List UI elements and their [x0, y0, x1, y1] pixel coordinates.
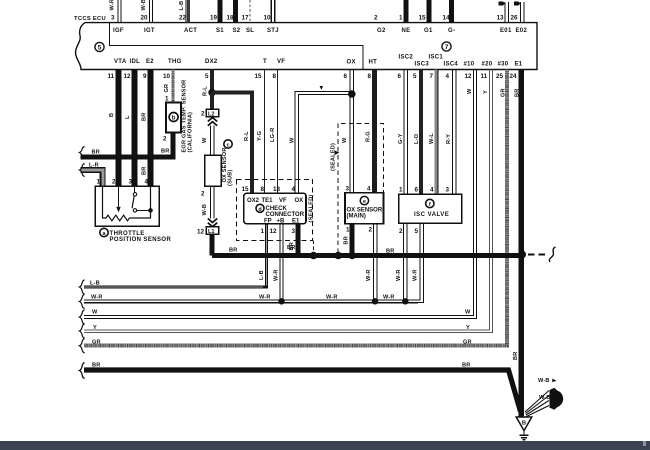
svg-text:8: 8 [273, 73, 277, 80]
svg-text:L1: L1 [208, 229, 215, 235]
svg-text:G2: G2 [377, 28, 386, 34]
svg-text:NE: NE [402, 28, 411, 34]
ground symbol B [516, 417, 532, 431]
svg-text:Y-G: Y-G [257, 131, 263, 141]
svg-text:L-O: L-O [414, 133, 420, 144]
svg-text:G1: G1 [424, 28, 433, 34]
ECU connector sub-box (IGF..STJ) [110, 23, 364, 70]
connector L2 [206, 109, 218, 117]
svg-text:BR: BR [142, 113, 148, 121]
svg-text:6: 6 [344, 73, 348, 80]
svg-text:BR: BR [161, 149, 169, 155]
svg-text:2: 2 [369, 227, 373, 234]
wire DX2 down to L2 [210, 93, 214, 110]
svg-text:E1: E1 [292, 218, 300, 224]
wire VF (LG-R) [277, 70, 279, 194]
svg-text:3: 3 [292, 228, 296, 235]
svg-text:G-: G- [448, 28, 455, 34]
svg-text:2: 2 [201, 111, 205, 118]
svg-text:G-Y: G-Y [398, 133, 404, 144]
wire W to OX sub [210, 126, 214, 156]
left break brace GR wire [79, 339, 84, 353]
svg-text:W: W [342, 137, 348, 143]
svg-text:13: 13 [273, 186, 281, 193]
ECU row1 pin numbers [111, 15, 518, 22]
svg-text:W-R: W-R [91, 295, 103, 301]
svg-text:Y: Y [483, 90, 489, 94]
OX main dashed shield [338, 123, 383, 253]
svg-text:2: 2 [374, 15, 378, 22]
svg-text:BR: BR [513, 352, 519, 360]
svg-text:IGF: IGF [113, 28, 124, 34]
svg-text:W-R: W-R [110, 0, 116, 11]
wire T (Y-G) [264, 70, 266, 194]
wire IGF (W-R pair) [118, 0, 121, 23]
svg-text:11: 11 [481, 73, 488, 80]
svg-text:GR: GR [501, 88, 507, 97]
wire NE [403, 0, 408, 23]
svg-text:B: B [109, 113, 115, 117]
svg-text:8: 8 [368, 73, 372, 80]
svg-text:b: b [172, 116, 176, 122]
svg-text:(SUB): (SUB) [228, 169, 234, 186]
wire ISC pin2 W-R [404, 223, 408, 301]
connector L1 [206, 227, 218, 235]
svg-text:W-R: W-R [396, 269, 402, 281]
svg-text:W-R: W-R [366, 269, 372, 281]
svg-text:OX SENSOR: OX SENSOR [347, 208, 383, 214]
svg-text:OX: OX [295, 198, 304, 204]
svg-text:VTA: VTA [114, 59, 127, 65]
svg-text:(SEALED): (SEALED) [331, 143, 337, 171]
svg-text:e: e [363, 199, 366, 205]
svg-text:7: 7 [430, 73, 434, 80]
svg-text:W-B: W-B [538, 378, 550, 384]
svg-text:W-B: W-B [202, 204, 208, 216]
svg-text:20: 20 [141, 15, 149, 22]
wire +B (W-R pair) [280, 224, 283, 301]
svg-text:W-B: W-B [141, 0, 147, 11]
connector arrows under L2 [208, 118, 217, 126]
svg-text:4: 4 [292, 186, 296, 193]
svg-text:POSITION SENSOR: POSITION SENSOR [110, 237, 172, 243]
svg-text:BR: BR [229, 248, 237, 254]
wire OX main pin2 W-R [373, 224, 377, 301]
svg-text:7: 7 [445, 44, 449, 51]
svg-text:W: W [202, 137, 208, 143]
svg-text:15: 15 [255, 73, 263, 80]
svg-text:13: 13 [497, 15, 505, 22]
svg-text:VF: VF [277, 59, 285, 65]
svg-text:3: 3 [446, 187, 450, 194]
svg-text:(MAIN): (MAIN) [347, 214, 366, 220]
svg-text:L-B: L-B [179, 1, 185, 11]
svg-text:3: 3 [129, 179, 133, 186]
node bus to E1 wire [518, 251, 526, 259]
svg-text:ISC4: ISC4 [444, 61, 459, 67]
svg-text:W-R: W-R [259, 295, 271, 301]
node shield junction 2 [334, 252, 342, 260]
svg-text:GR: GR [92, 340, 101, 346]
svg-text:E2: E2 [146, 59, 154, 65]
wire ISC2 (G-Y pair) [404, 70, 408, 195]
fan wires to ground [525, 391, 549, 417]
node DX2 junction [208, 89, 215, 96]
svg-text:W: W [465, 310, 471, 316]
BR bottom line [84, 370, 521, 412]
wire R-L to check connector OX2 [212, 93, 252, 194]
svg-text:BR: BR [515, 89, 521, 97]
svg-text:W-B: W-B [539, 395, 551, 401]
svg-text:BR: BR [142, 167, 148, 175]
svg-text:4: 4 [446, 73, 450, 80]
svg-text:W-R: W-R [274, 269, 280, 281]
svg-text:18: 18 [227, 15, 235, 22]
IDL switch [134, 186, 136, 192]
throttle position sensor box [95, 186, 159, 226]
svg-text:BR: BR [462, 363, 470, 369]
left break brace W wire [79, 310, 84, 324]
svg-text:ISC VALVE: ISC VALVE [414, 212, 449, 218]
svg-text:#20: #20 [482, 61, 493, 67]
OX sensor (sub) c [205, 155, 222, 186]
svg-text:3: 3 [111, 15, 115, 22]
svg-text:BR: BR [92, 150, 100, 156]
OX sensor (main) e [345, 193, 384, 224]
wire ACT (L-B) [187, 0, 190, 23]
svg-text:24: 24 [510, 73, 518, 80]
svg-text:W-R: W-R [383, 295, 395, 301]
svg-text:BR: BR [344, 236, 350, 244]
svg-text:2: 2 [112, 179, 116, 186]
wire FP (L-B) [84, 224, 267, 287]
svg-text:W-L: W-L [429, 133, 435, 144]
svg-text:6: 6 [398, 73, 402, 80]
wire E1/BR main ground wire [518, 70, 524, 418]
svg-text:26: 26 [511, 15, 519, 22]
svg-text:FP: FP [264, 218, 272, 224]
svg-text:9: 9 [143, 73, 147, 80]
wire VTA (B) [116, 70, 122, 187]
wire SL (dashed) [249, 0, 251, 23]
svg-text:VF: VF [279, 198, 287, 204]
svg-text:1: 1 [165, 96, 169, 103]
node ISC W-R junction [402, 298, 408, 304]
node +B junction [278, 298, 284, 304]
left break brace BR wire [79, 147, 84, 159]
BR bus [212, 253, 523, 258]
svg-text:ISC3: ISC3 [415, 61, 430, 67]
wire #20 (Y pair) down to Y line [84, 70, 493, 333]
wire S2 [233, 0, 238, 23]
svg-text:2: 2 [201, 191, 205, 198]
svg-text:#30: #30 [498, 61, 509, 67]
svg-text:17: 17 [242, 15, 250, 22]
ECU connector symbol 5 [95, 42, 104, 51]
ISC valve f [399, 194, 462, 223]
wiper arrow [118, 186, 120, 206]
wire E01 pair with arrow [505, 2, 509, 23]
svg-text:4: 4 [367, 186, 371, 193]
svg-text:5: 5 [98, 45, 102, 52]
W-R line [84, 300, 418, 303]
svg-text:LG-R: LG-R [270, 128, 276, 142]
svg-text:B: B [522, 421, 526, 427]
svg-text:1: 1 [97, 179, 101, 186]
svg-text:R-L: R-L [203, 86, 209, 96]
wire L-R to throttle pin1 [81, 170, 103, 186]
svg-text:10: 10 [163, 73, 171, 80]
svg-text:1: 1 [261, 228, 265, 235]
svg-text:8: 8 [261, 186, 265, 193]
left break brace Y wire [79, 324, 84, 338]
svg-text:ISC2: ISC2 [399, 55, 414, 61]
svg-text:Y: Y [93, 325, 97, 331]
node shield junction [310, 252, 318, 260]
wire DX2 (R-L) [210, 70, 214, 93]
svg-text:L-B: L-B [90, 281, 100, 287]
svg-text:DX2: DX2 [205, 59, 218, 65]
TCCS ECU body [76, 23, 538, 70]
svg-text:STJ: STJ [267, 28, 279, 34]
wire EGR-2 to BR (thick) [81, 133, 174, 158]
svg-text:12: 12 [465, 73, 473, 80]
body ground connector (black) [550, 388, 564, 410]
throttle sensor caption a [100, 228, 108, 236]
svg-text:T: T [263, 59, 267, 65]
wire E2 (BR) [148, 70, 154, 187]
wire ISC3 (L-O) [419, 70, 423, 195]
svg-text:R-L: R-L [244, 131, 250, 141]
svg-text:TCCS ECU: TCCS ECU [74, 16, 106, 22]
svg-text:L2: L2 [208, 112, 215, 118]
svg-text:W: W [290, 137, 296, 143]
svg-text:Y: Y [466, 325, 470, 331]
wire L1 to BR bus [210, 234, 215, 255]
svg-text:12: 12 [270, 228, 278, 235]
svg-text:5: 5 [205, 73, 209, 80]
wire #30 (GR speckled) down to GR line [84, 70, 507, 346]
svg-text:E1: E1 [515, 61, 523, 67]
left break brace L-B wire [79, 280, 84, 294]
svg-text:W: W [92, 310, 98, 316]
svg-text:W-R: W-R [413, 269, 419, 281]
svg-text:CHECK: CHECK [266, 206, 288, 212]
svg-text:(SEALED): (SEALED) [308, 194, 314, 222]
wire STJ [271, 0, 274, 23]
svg-text:f: f [429, 202, 431, 208]
svg-text:12: 12 [124, 73, 132, 80]
svg-text:5: 5 [415, 228, 419, 235]
svg-text:15: 15 [419, 15, 427, 22]
wire E02 pair with arrow [521, 2, 525, 23]
check connector dashed enclosure [237, 180, 313, 241]
svg-text:W-R: W-R [326, 295, 338, 301]
bus continuation dashed + break [528, 254, 548, 256]
wire G1 [426, 0, 431, 23]
svg-text:S1: S1 [216, 28, 224, 34]
svg-text:2: 2 [399, 228, 403, 235]
svg-text:d: d [258, 207, 261, 213]
wire ISC4 (R-Y pair) [453, 70, 457, 195]
svg-text:25: 25 [496, 73, 504, 80]
node OX junction [348, 90, 356, 98]
wire IDL (L) [132, 70, 138, 187]
EGR gas temp sensor b [166, 103, 181, 133]
wire G- [449, 0, 454, 23]
dashed shield drop to bus [313, 240, 315, 253]
svg-text:+B: +B [277, 218, 286, 224]
svg-text:4: 4 [430, 187, 434, 194]
throttle sensor internals: potentiometer [103, 186, 151, 221]
wire W-B from OX sub [210, 186, 214, 218]
svg-text:12: 12 [197, 229, 205, 236]
svg-text:L-R: L-R [89, 163, 99, 169]
ECU row2 pin numbers [108, 73, 518, 80]
ECU connector symbol 7 [442, 42, 451, 51]
wire ISC1 (W-L) [435, 70, 438, 195]
ECU row2 pin labels [114, 55, 523, 68]
svg-text:E02: E02 [516, 28, 528, 34]
svg-text:CONNECTOR: CONNECTOR [266, 212, 305, 218]
wire ISC pin5 W-R corner [418, 223, 424, 302]
check connector d [244, 193, 306, 223]
svg-text:E01: E01 [500, 28, 512, 34]
svg-text:L: L [125, 115, 131, 119]
connector arrows above L1 [208, 219, 217, 227]
svg-text:ISC1: ISC1 [429, 55, 444, 61]
svg-text:2: 2 [163, 136, 167, 143]
svg-text:15: 15 [242, 186, 250, 193]
wire S1 [217, 0, 222, 23]
svg-text:GR: GR [463, 340, 472, 346]
wire IGT (W-B pair) [150, 0, 153, 23]
svg-text:IGT: IGT [144, 28, 155, 34]
svg-text:ACT: ACT [184, 28, 197, 34]
svg-text:L-B: L-B [259, 270, 265, 280]
left break brace BR bottom [79, 363, 84, 379]
wire HT (R-G) [372, 70, 377, 193]
svg-text:(CALIFORNIA): (CALIFORNIA) [188, 112, 194, 153]
svg-text:HT: HT [369, 60, 378, 66]
svg-text:19: 19 [210, 15, 218, 22]
svg-text:BR: BR [386, 249, 394, 255]
svg-text:3: 3 [346, 186, 350, 193]
ECU row1 pin labels [113, 28, 527, 34]
left break brace L-R wire [79, 164, 84, 177]
svg-text:10: 10 [264, 15, 272, 22]
svg-text:#10: #10 [464, 61, 475, 67]
svg-text:11: 11 [108, 73, 115, 80]
svg-text:5: 5 [413, 73, 417, 80]
svg-text:BR: BR [287, 245, 295, 251]
svg-text:GR: GR [164, 84, 170, 93]
node OX main W-R junction [372, 298, 378, 304]
svg-text:S2: S2 [233, 28, 241, 34]
wire #10 (W pair) down to W line [84, 70, 477, 319]
wire OX W pair to check connector [295, 70, 354, 194]
svg-text:1: 1 [399, 187, 403, 194]
wire THG (GR speckled) [171, 70, 174, 103]
bottom page edge bar [0, 441, 650, 450]
svg-text:IDL: IDL [130, 59, 141, 65]
svg-text:1: 1 [346, 227, 350, 234]
svg-text:1: 1 [399, 15, 403, 22]
svg-text:4: 4 [145, 179, 149, 186]
wire OX main pin1 BR to bus [350, 224, 355, 256]
svg-text:OX: OX [347, 60, 356, 66]
svg-text:SL: SL [246, 28, 254, 34]
svg-text:R-G: R-G [366, 131, 372, 142]
svg-text:R-Y: R-Y [446, 134, 452, 144]
svg-text:6: 6 [415, 187, 419, 194]
wire E1 to BR bus [296, 224, 301, 256]
svg-text:W: W [467, 88, 473, 94]
svg-text:THG: THG [168, 59, 182, 65]
svg-text:BR: BR [92, 363, 100, 369]
svg-text:OX2: OX2 [247, 198, 260, 204]
svg-text:TE1: TE1 [262, 198, 274, 204]
left break brace W-R wire [79, 294, 84, 308]
node OX main ground junction [348, 252, 356, 260]
